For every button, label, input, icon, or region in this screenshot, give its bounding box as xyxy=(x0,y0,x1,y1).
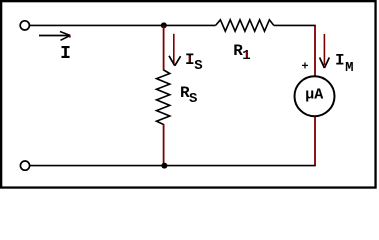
polarity plus sign xyxy=(302,62,308,68)
svg-text:S: S xyxy=(194,58,202,74)
resistor R1 xyxy=(216,20,274,31)
wire bottom: T2 to ammeter branch xyxy=(30,165,316,167)
node B (bottom junction) xyxy=(161,163,167,169)
wire: RS bottom to node B xyxy=(163,124,165,166)
ammeter U1 xyxy=(295,76,335,116)
label IS xyxy=(185,51,203,74)
wire: corner down to ammeter xyxy=(314,26,316,77)
wire: ammeter bottom to bottom wire xyxy=(314,116,316,165)
current arrow IS xyxy=(169,34,181,66)
resistor RS xyxy=(157,70,170,125)
wire top: T1 to R1 left xyxy=(30,24,216,26)
svg-text:S: S xyxy=(189,91,197,107)
svg-text:I: I xyxy=(335,52,345,70)
terminal T2 (bottom-left input) xyxy=(20,161,29,170)
label IM xyxy=(335,52,354,76)
terminal T1 (top-left input) xyxy=(20,21,29,30)
current arrow IM xyxy=(320,34,330,68)
label R1 xyxy=(233,42,251,64)
current arrow I xyxy=(39,32,71,41)
wire top: R1 right to top-right corner xyxy=(274,25,315,26)
svg-text:M: M xyxy=(345,60,353,76)
node A (top junction) xyxy=(161,22,167,28)
svg-text:I: I xyxy=(60,44,71,64)
svg-text:µA: µA xyxy=(305,86,323,103)
label RS xyxy=(180,84,197,107)
wire: node A down to RS top xyxy=(163,25,165,70)
